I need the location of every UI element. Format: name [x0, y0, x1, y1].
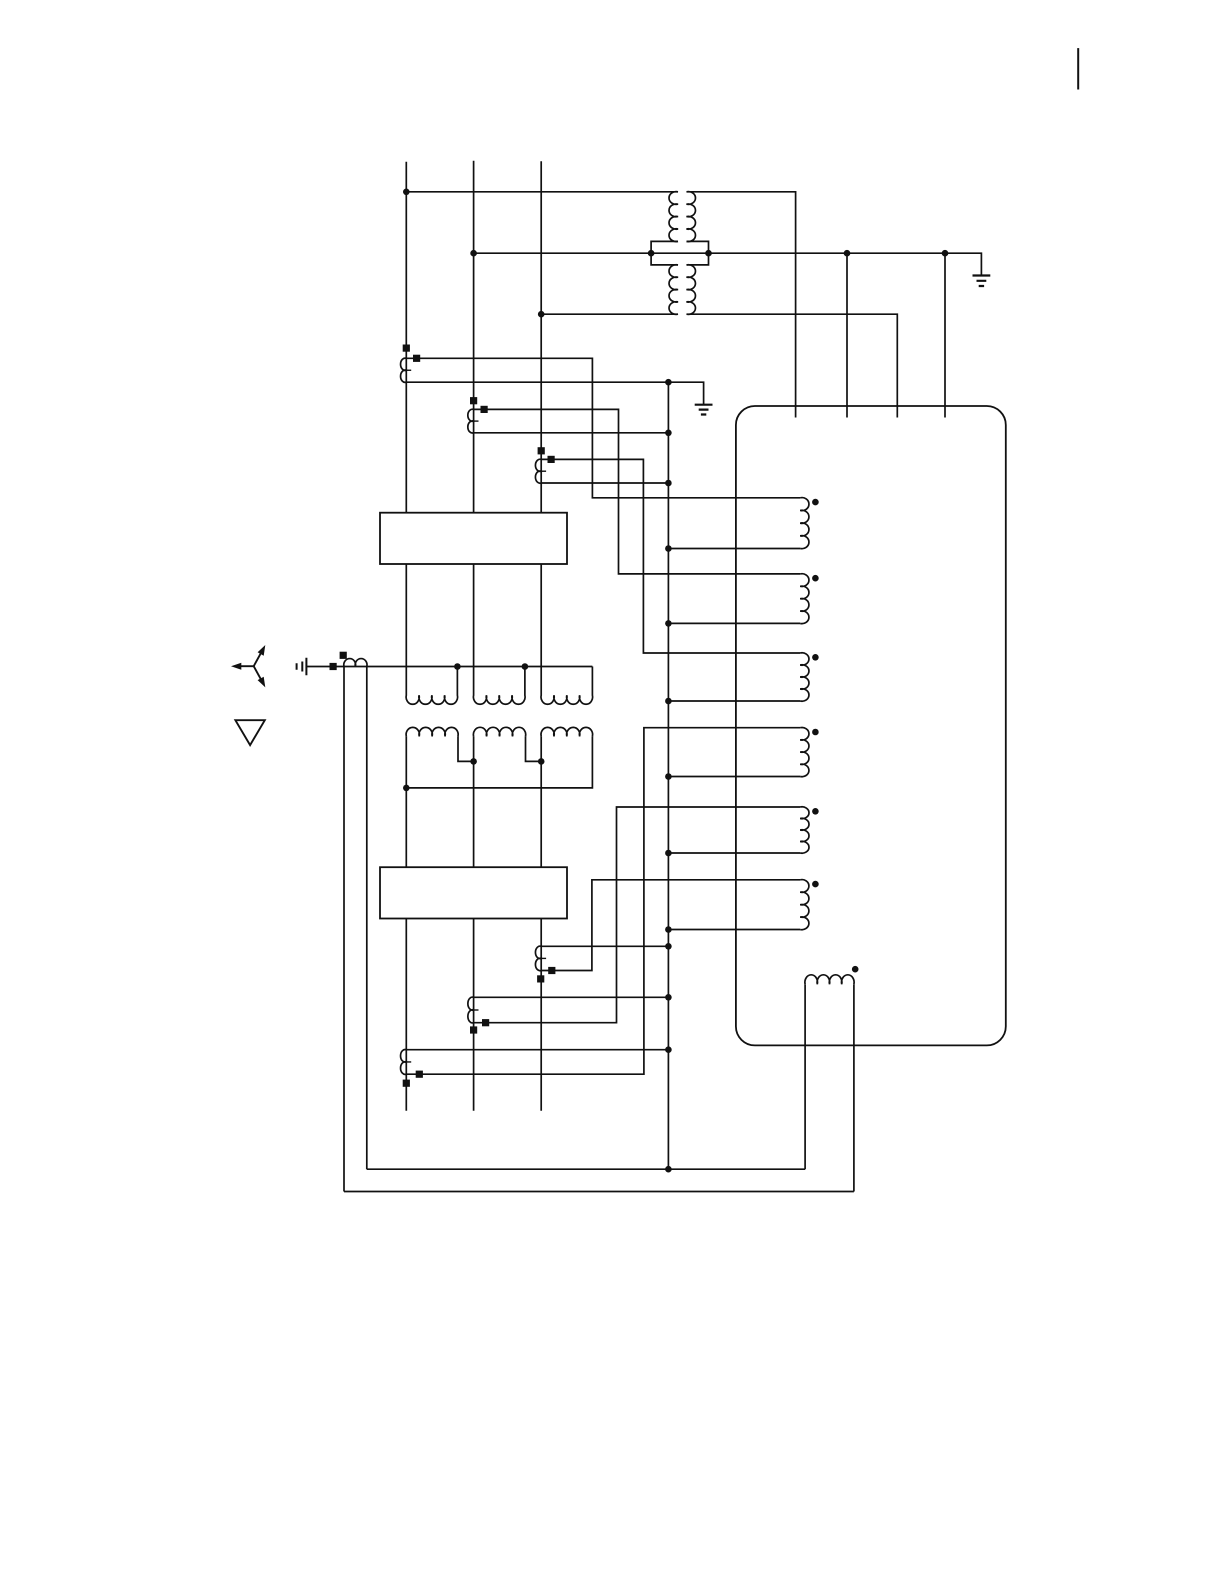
relay restraint winding 5 coil: [800, 807, 809, 853]
CT1 cusp tick: [406, 369, 411, 371]
CT5 polarity mark on bus B: [470, 1026, 477, 1033]
CT4 secondary winding: [401, 1049, 407, 1074]
relay restraint winding 3 polarity dot: [812, 654, 819, 661]
wire CT2 polarity lead to relay winding 2: [474, 409, 801, 574]
transformer T2 lower-right winding: [687, 265, 696, 315]
CT2 polarity mark on lead: [481, 406, 488, 413]
wye symbol: [231, 645, 265, 687]
CT3 polarity mark on lead: [548, 456, 555, 463]
node relay input 4 tap: [942, 250, 949, 257]
CT1 secondary winding: [401, 358, 407, 382]
wire delta C left leg to lower box: [540, 736, 542, 867]
wire delta A-B link: [458, 736, 474, 761]
transformer bank lower box: [380, 867, 567, 918]
bus phase A (upper segment): [405, 162, 407, 513]
CT1 polarity mark on lead: [413, 355, 420, 362]
CT3 cusp tick: [541, 470, 546, 472]
wye winding phase A: [406, 564, 457, 704]
wire CT5 return lead to common: [474, 996, 669, 998]
delta winding phase C coil: [541, 727, 593, 736]
node common to line 1 junction: [665, 1166, 672, 1173]
wye winding phase B: [473, 564, 525, 704]
node delta A-B junction: [470, 758, 477, 765]
node relay input 2 tap: [844, 250, 851, 257]
node relay restraint winding 2 return junction: [665, 620, 672, 627]
wire relay input 2: [846, 253, 848, 417]
node CT2 return junction: [665, 430, 672, 437]
wire CT4 polarity lead to relay winding 4: [406, 728, 800, 1074]
CT5 polarity mark on lead: [482, 1019, 489, 1026]
wire bottom return line 1: [367, 1168, 805, 1170]
wire T2 lower-right coil to relay input 3: [687, 314, 898, 417]
node delta A corner junction: [403, 785, 410, 792]
wire phase A to T1 upper-left coil: [406, 191, 678, 193]
node CT5 return junction: [665, 994, 672, 1001]
CT4 polarity mark on lead: [416, 1071, 423, 1078]
relay 87 multi-restraint box: [736, 406, 1006, 1045]
ground G2: [695, 405, 713, 415]
relay winding 7 polarity dot: [852, 966, 859, 973]
relay restraint winding 6 coil: [800, 880, 809, 930]
node wye B neutral junction: [522, 663, 529, 670]
wire CT6 return lead to common: [541, 945, 668, 947]
node relay restraint winding 1 return junction: [665, 545, 672, 552]
bus phase A (lower segment): [405, 919, 407, 1111]
wye winding phase C: [541, 564, 593, 704]
node CT6 return junction: [665, 943, 672, 950]
relay restraint winding 4 return lead to common: [668, 776, 800, 778]
relay restraint winding 6 polarity dot: [812, 881, 819, 888]
wire CT6 polarity lead to relay winding 6: [541, 880, 800, 971]
ground G1: [973, 276, 991, 287]
relay winding 7 coil: [805, 975, 854, 984]
wire T1 upper-right coil to relay input 1: [687, 192, 796, 418]
CT2 polarity mark on bus B: [470, 397, 477, 404]
relay restraint winding 2 return lead to common: [668, 622, 800, 624]
bus phase C (upper segment): [540, 161, 542, 513]
page edge mark: [1077, 48, 1079, 89]
relay restraint winding 2 polarity dot: [812, 575, 819, 582]
bus phase C (lower segment): [540, 919, 542, 1111]
node relay restraint winding 3 return junction: [665, 698, 672, 705]
CT3 polarity mark on bus C: [538, 447, 545, 454]
wire CT1 polarity lead to relay winding 1: [406, 358, 800, 498]
CT5 secondary winding: [468, 997, 474, 1023]
wire phase C to T2 lower-left coil: [541, 313, 678, 315]
relay restraint winding 5 return lead to common: [668, 852, 800, 854]
bus phase B (lower segment): [473, 919, 475, 1111]
wire common residual conductor: [667, 382, 669, 1169]
node CT4 return junction: [665, 1046, 672, 1053]
relay restraint winding 1 return lead to common: [668, 548, 800, 550]
CT6 secondary winding: [535, 946, 541, 971]
transformer T1 upper-left winding: [669, 192, 678, 242]
relay restraint winding 4 polarity dot: [812, 729, 819, 736]
wire neutral CT lead 2 to bottom line 1: [366, 667, 368, 1170]
node phase A tap: [403, 189, 410, 196]
delta symbol: [235, 720, 264, 745]
relay restraint winding 4 coil: [800, 727, 809, 776]
relay restraint winding 6 return lead to common: [668, 929, 800, 931]
wire delta C-A closing link: [406, 736, 592, 788]
neutral CT polarity mark on neutral: [330, 663, 337, 670]
node CT1 return junction: [665, 379, 672, 386]
wire relay input 4: [944, 253, 946, 417]
node CT3 return junction: [665, 480, 672, 487]
CT6 cusp tick: [541, 957, 546, 959]
wire CT5 polarity lead to relay winding 5: [474, 807, 801, 1023]
wire delta B left leg to lower box: [473, 736, 475, 867]
delta winding phase A coil: [406, 727, 458, 736]
relay restraint winding 3 return lead to common: [668, 700, 800, 702]
CT6 polarity mark on bus C: [537, 975, 544, 982]
CT2 secondary winding: [468, 409, 474, 433]
wire neutral CT lead 1 to bottom line 2: [343, 667, 345, 1192]
wire CT3 return lead to common: [541, 482, 668, 484]
CT2 cusp tick: [474, 420, 479, 422]
node relay restraint winding 4 return junction: [665, 773, 672, 780]
wire CT3 polarity lead to relay winding 3: [541, 459, 800, 653]
wire CT2 return lead to common: [474, 432, 669, 434]
node wye A neutral junction: [454, 663, 461, 670]
CT5 cusp tick: [474, 1009, 479, 1011]
node delta B-C junction: [538, 758, 545, 765]
transformer bank upper box: [380, 513, 567, 564]
neutral CT polarity mark on lead: [340, 652, 347, 659]
CT6 polarity mark on lead: [548, 967, 555, 974]
CT1 polarity mark on bus A: [403, 345, 410, 352]
wire T1/T2 right step: [687, 241, 709, 265]
wire winding 7 left lead: [804, 984, 806, 1169]
wire delta A left leg to lower box: [405, 736, 407, 867]
CT4 polarity mark on bus A: [403, 1080, 410, 1087]
node phase C tap: [538, 311, 545, 318]
wire bottom return line 2: [344, 1191, 854, 1193]
ground G3 (neutral ground): [297, 658, 307, 676]
CT3 secondary winding: [535, 459, 541, 483]
transformer T2 lower-left winding: [669, 265, 678, 315]
relay restraint winding 2 coil: [800, 574, 809, 624]
wire CT4 return lead to common: [406, 1049, 668, 1051]
node left step junction: [648, 250, 655, 257]
wire CT1 return lead to common: [406, 382, 703, 404]
neutral CT secondary winding: [344, 659, 367, 667]
wire phase B row to ground G1: [474, 253, 982, 275]
node right step junction: [705, 250, 712, 257]
wire delta B-C link: [526, 736, 542, 761]
wire T1/T2 left step: [651, 241, 678, 265]
node phase B tap: [470, 250, 477, 257]
delta winding phase B coil: [473, 727, 525, 736]
node relay restraint winding 5 return junction: [665, 850, 672, 857]
relay restraint winding 3 coil: [800, 653, 809, 701]
wire transformer neutral: [306, 666, 592, 668]
relay restraint winding 1 polarity dot: [812, 499, 819, 506]
node relay restraint winding 6 return junction: [665, 926, 672, 933]
transformer T1 upper-right winding: [687, 192, 696, 242]
relay restraint winding 5 polarity dot: [812, 808, 819, 815]
CT4 cusp tick: [406, 1061, 411, 1063]
wire winding 7 right lead: [853, 984, 855, 1191]
bus phase B (upper segment): [473, 161, 475, 513]
relay restraint winding 1 coil: [800, 498, 809, 549]
